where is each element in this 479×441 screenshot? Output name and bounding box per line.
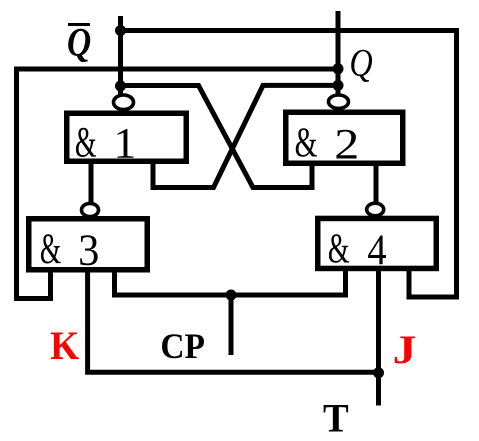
svg-text:4: 4 xyxy=(367,226,386,273)
svg-text:T: T xyxy=(323,396,349,441)
svg-text:CP: CP xyxy=(160,326,205,366)
svg-text:Q: Q xyxy=(349,41,373,84)
svg-text:1: 1 xyxy=(113,119,136,167)
svg-text:3: 3 xyxy=(78,225,99,274)
svg-text:J: J xyxy=(393,327,417,372)
svg-text:&: & xyxy=(295,120,318,166)
svg-text:&: & xyxy=(328,225,350,272)
svg-text:2: 2 xyxy=(334,121,359,169)
svg-text:&: & xyxy=(75,119,97,166)
svg-text:Q: Q xyxy=(67,21,91,66)
svg-text:K: K xyxy=(50,324,79,369)
svg-text:&: & xyxy=(40,225,61,273)
